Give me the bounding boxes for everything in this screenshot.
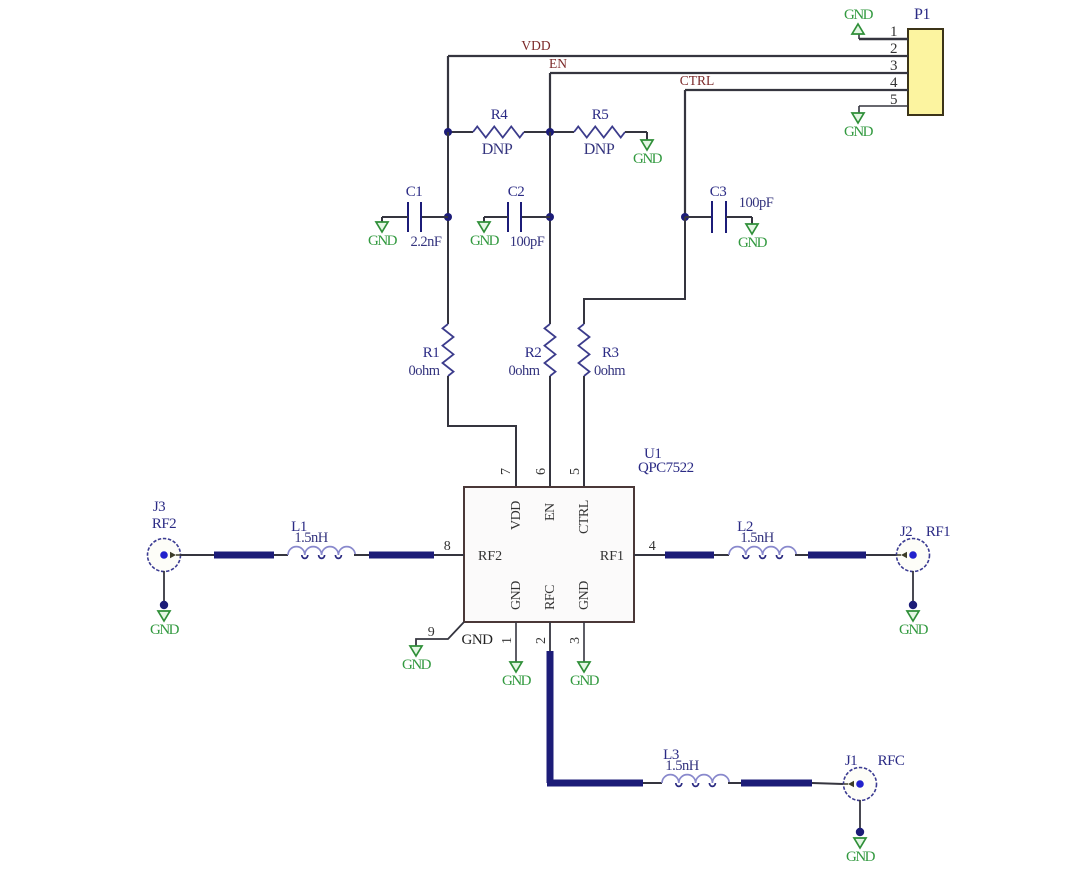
wire VDD column down to R1 [447,132,449,324]
connector J3 [148,539,181,572]
svg-text:GND: GND [738,235,768,251]
wire R4 left lead [448,131,473,133]
svg-text:1.5nH: 1.5nH [740,530,774,546]
svg-text:GND: GND [844,124,874,140]
resistor R4 [473,127,524,138]
capacitor C1 [408,202,421,232]
svg-text:GND: GND [577,581,592,610]
wire J3 to first thick trace [180,554,214,556]
svg-text:RF2: RF2 [478,549,502,564]
wire CTRL column step down to R3 [584,217,685,324]
svg-text:1: 1 [890,24,897,40]
svg-text:RFC: RFC [543,585,558,610]
junction at EN column R4 row [546,128,554,136]
svg-text:4: 4 [649,539,656,554]
connector J2 [897,539,930,572]
svg-text:C1: C1 [406,184,423,200]
thick trace to U1 pin 8 [369,552,434,559]
svg-text:2: 2 [890,41,897,57]
svg-text:0ohm: 0ohm [408,363,440,379]
svg-text:7: 7 [499,468,514,475]
wire C2 right lead [521,216,550,218]
svg-text:100pF: 100pF [510,234,545,250]
wire R4 to R5 [524,131,574,133]
junction dot at J2 ground [909,601,917,609]
wire P1 pin1 to ground [859,38,908,40]
resistor R3 [579,324,590,376]
resistor R5 [574,127,625,138]
wire to L2 [714,554,729,556]
svg-text:GND: GND [633,151,663,167]
inductor L1 [288,547,355,559]
capacitor C2 [508,202,521,232]
thick trace to J2 [808,552,866,559]
wire U1 pin 4 to thick trace [634,554,665,556]
thick trace J2 side inner [665,552,714,559]
ground at J3 [150,611,180,638]
ground at C3 [738,224,768,251]
svg-text:C3: C3 [710,184,727,200]
wire to L1 [274,554,288,556]
svg-text:5: 5 [568,468,583,475]
svg-text:1: 1 [500,637,515,644]
svg-text:GND: GND [462,632,494,648]
svg-text:RF1: RF1 [926,524,950,540]
ground at U1 pin 3 [570,662,600,689]
svg-text:2: 2 [534,637,549,644]
svg-text:R5: R5 [592,107,609,123]
ground at J1 [846,838,876,865]
wire R5 to ground [625,131,647,133]
resistor R1 [443,324,454,376]
wire EN net [550,72,908,74]
svg-text:J3: J3 [153,499,165,515]
ground at P1 pin 1 [844,7,874,34]
ground at C2 [470,222,500,249]
svg-text:R4: R4 [491,107,509,123]
junction at VDD column R4 row [444,128,452,136]
ground at R5 [633,140,663,167]
wire C3 left lead [685,216,712,218]
resistor R2 [545,324,556,376]
thick trace to J1 [741,780,812,787]
svg-text:GND: GND [899,622,929,638]
thick trace RFC vertical [547,651,554,783]
svg-text:DNP: DNP [482,141,513,158]
wire R1 to U1 pin 7 [448,376,516,487]
svg-text:C2: C2 [508,184,525,200]
wire L3 to thick trace [728,782,741,784]
capacitor C3 [712,201,726,233]
wire J1 to ground [859,800,861,828]
svg-text:2.2nF: 2.2nF [411,234,442,250]
wire J2 to ground [912,571,914,601]
svg-text:CTRL: CTRL [577,500,592,534]
svg-text:3: 3 [890,58,897,74]
svg-text:1.5nH: 1.5nH [294,530,328,546]
wire L2 to thick trace [795,554,808,556]
svg-text:1.5nH: 1.5nH [665,758,699,774]
svg-text:GND: GND [846,849,876,865]
wire thick trace to J1 [812,783,843,784]
wire U1 pin 2 stub [549,622,551,651]
svg-text:GND: GND [402,657,432,673]
ground at U1 pin 9 [402,646,432,673]
svg-text:0ohm: 0ohm [508,363,540,379]
svg-text:RFC: RFC [878,753,905,769]
inductor L2 [729,547,796,559]
junction dot at J3 ground [160,601,168,609]
svg-text:J1: J1 [845,753,857,769]
svg-text:3: 3 [568,637,583,644]
svg-text:GND: GND [509,581,524,610]
svg-text:P1: P1 [914,6,930,23]
wire U1 pin 9 to ground [416,622,464,646]
wire P1 pin5 to ground [859,105,908,107]
svg-text:100pF: 100pF [739,195,774,211]
wire L1 to thick trace [354,554,369,556]
wire U1 pin 1 to ground [515,622,517,662]
svg-text:R3: R3 [602,345,619,361]
svg-text:4: 4 [890,75,898,91]
ground at P1 pin 5 [844,113,874,140]
thick trace J3 side [214,552,274,559]
wire thick trace to U1 pin 8 [434,554,464,556]
wire U1 pin 3 to ground [583,622,585,662]
wire EN column down to R2 [549,132,551,324]
inductor L3 [662,775,729,787]
svg-text:GND: GND [502,673,532,689]
wire J3 to ground [163,571,165,601]
svg-text:R1: R1 [423,345,440,361]
svg-text:EN: EN [549,56,567,71]
wire C1 right lead [421,216,448,218]
junction at C2 [546,213,554,221]
svg-text:GND: GND [368,233,398,249]
junction dot at J1 ground [856,828,864,836]
op chip U1 body [464,487,634,622]
svg-text:EN: EN [543,503,558,521]
svg-text:GND: GND [470,233,500,249]
wire RFC lead to L3 [643,782,662,784]
wire CTRL net [685,89,908,91]
wire C2 left lead to ground [484,216,508,218]
svg-text:CTRL: CTRL [680,73,715,88]
ground at U1 pin 1 [502,662,532,689]
svg-text:QPC7522: QPC7522 [638,460,694,476]
connector P1 [908,29,943,115]
wire R2 to U1 pin 6 [549,376,551,487]
svg-text:GND: GND [570,673,600,689]
wire VDD net [448,55,908,57]
connector J1 [844,768,877,801]
svg-text:J2: J2 [900,524,912,540]
junction at C1 [444,213,452,221]
svg-text:R2: R2 [525,345,542,361]
wire C3 right lead to ground [726,216,752,218]
ground at J2 [899,611,929,638]
thick trace RFC horizontal [547,780,643,787]
svg-text:9: 9 [428,625,435,640]
svg-text:8: 8 [444,539,451,554]
wire C1 left lead to ground [382,216,408,218]
svg-text:6: 6 [534,468,549,475]
svg-text:0ohm: 0ohm [594,363,626,379]
svg-text:GND: GND [150,622,180,638]
svg-text:RF2: RF2 [152,516,176,532]
svg-text:VDD: VDD [509,501,524,530]
svg-text:VDD: VDD [521,38,550,53]
svg-text:GND: GND [844,7,874,23]
svg-text:RF1: RF1 [600,549,624,564]
junction at C3 [681,213,689,221]
wire thick trace to J2 [866,554,897,556]
ground at C1 [368,222,398,249]
svg-text:DNP: DNP [584,141,615,158]
wire R3 to U1 pin 5 [583,376,585,487]
